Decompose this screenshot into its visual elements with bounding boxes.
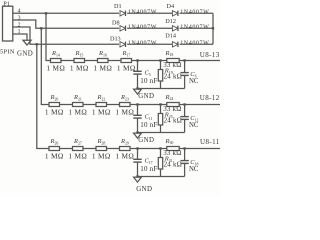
capacitor C6 <box>180 72 188 74</box>
node U8-13 resistor tap <box>159 59 161 61</box>
node U8-13 cap tap <box>136 59 138 61</box>
svg-text:D12: D12 <box>165 18 176 25</box>
diode D8 <box>120 26 126 31</box>
resistor R19 body <box>158 70 162 82</box>
junction feed U8-12 <box>40 27 42 29</box>
resistor R29 body <box>120 147 131 151</box>
wire cap to rail <box>137 162 139 176</box>
wire to R31 <box>160 149 162 158</box>
svg-text:1 MΩ: 1 MΩ <box>93 63 112 72</box>
resistor R16 body <box>98 59 109 63</box>
svg-text:D8: D8 <box>112 19 120 26</box>
capacitor C12 <box>180 116 188 118</box>
wire <box>107 148 120 150</box>
svg-text:NC: NC <box>189 166 199 173</box>
svg-text:D14: D14 <box>165 33 176 40</box>
svg-text:2: 2 <box>18 23 21 29</box>
diode D12 <box>172 26 178 31</box>
svg-text:10 nF: 10 nF <box>140 77 157 85</box>
junction feed U8-13 <box>45 12 47 14</box>
wire to cap C18 <box>184 149 186 161</box>
wire <box>85 60 98 62</box>
node U8-11 cap tap <box>136 147 138 149</box>
wire <box>60 148 73 150</box>
svg-text:1 MΩ: 1 MΩ <box>68 151 87 160</box>
node U8-11 resistor tap <box>159 147 161 149</box>
wire cap C18 to rail <box>184 163 186 176</box>
resistor R24 body <box>167 103 179 107</box>
resistor R26 body <box>49 147 60 151</box>
resistor R28 body <box>96 147 107 151</box>
ground at P1 pin1 <box>23 40 31 45</box>
ground rail U8-12 <box>138 132 185 134</box>
wire pin3 to D8 anode <box>13 20 119 28</box>
capacitor C5 <box>133 70 141 72</box>
junction feed U8-11 <box>36 43 38 45</box>
svg-text:GND: GND <box>138 137 154 144</box>
resistor R15 body <box>74 59 85 63</box>
connector P1 body <box>3 6 13 41</box>
wire to U8-13 <box>179 60 220 62</box>
svg-text:1 MΩ: 1 MΩ <box>68 107 87 116</box>
diode D13 <box>120 42 126 47</box>
svg-text:GND: GND <box>136 186 152 193</box>
svg-text:U8-12: U8-12 <box>200 94 220 102</box>
diode D4 <box>172 11 178 16</box>
wire <box>83 104 96 106</box>
capacitor C11 <box>133 114 141 116</box>
ground rail U8-11 <box>138 176 185 178</box>
wire to cap C12 <box>184 105 186 117</box>
wire to cap C6 <box>184 61 186 73</box>
resistor R31 body <box>158 158 162 170</box>
wire pin2 to D13 anode <box>13 27 119 44</box>
wire D13 cathode to D14 anode <box>127 43 172 45</box>
node U8-12 resistor tap <box>159 103 161 105</box>
capacitor C17 <box>133 158 141 160</box>
svg-text:D1: D1 <box>114 3 122 10</box>
wire chain to R24 U8-12 <box>130 104 167 106</box>
wire chain to R30 U8-11 <box>130 148 167 150</box>
node U8-13 NC cap tap <box>183 59 185 61</box>
svg-text:10 nF: 10 nF <box>140 121 157 129</box>
ground U8-13 <box>134 89 142 94</box>
wire pin4 to D1 anode <box>13 12 119 14</box>
svg-text:1 MΩ: 1 MΩ <box>115 151 134 160</box>
svg-text:U8-13: U8-13 <box>200 51 220 59</box>
wire to cap C11 <box>137 105 139 116</box>
resistor R14 body <box>51 59 62 63</box>
svg-text:1 MΩ: 1 MΩ <box>70 63 89 72</box>
svg-text:1 MΩ: 1 MΩ <box>92 151 111 160</box>
capacitor C18 <box>180 160 188 162</box>
wire cap C6 to rail <box>184 75 186 88</box>
junction diode bus row2 <box>212 27 214 29</box>
wire D14 cathode to bus <box>180 43 213 45</box>
node U8-12 cap tap <box>136 103 138 105</box>
wire chain to R18 U8-13 <box>132 60 167 62</box>
resistor R30 body <box>167 147 179 151</box>
wire feed to chain U8-13 <box>46 13 51 60</box>
resistor R20 body <box>49 103 60 107</box>
diode D14 <box>172 42 178 47</box>
wire D8 cathode to D12 anode <box>127 27 172 29</box>
svg-text:33 kΩ: 33 kΩ <box>163 61 181 69</box>
svg-text:5PIN: 5PIN <box>0 49 15 56</box>
node U8-11 NC cap tap <box>183 147 185 149</box>
wire R25 to rail <box>160 125 162 133</box>
svg-text:NC: NC <box>189 78 199 85</box>
wire <box>107 104 120 106</box>
svg-text:33 kΩ: 33 kΩ <box>163 149 181 157</box>
wire to U8-11 <box>179 148 220 150</box>
wire pin1 to ground <box>13 34 27 40</box>
wire cap to rail <box>137 74 139 88</box>
svg-text:24 kΩ: 24 kΩ <box>164 73 182 81</box>
wire cap to rail <box>137 118 139 132</box>
junction rail U8-11 <box>136 175 138 177</box>
wire to cap C5 <box>137 61 139 72</box>
wire to cap C17 <box>137 149 139 160</box>
junction rail U8-12 <box>136 131 138 133</box>
wire D12 cathode to bus <box>180 27 213 29</box>
svg-text:33 kΩ: 33 kΩ <box>163 105 181 113</box>
resistor R22 body <box>96 103 107 107</box>
wire <box>61 60 74 62</box>
wire R31 to rail <box>160 169 162 177</box>
svg-text:1 MΩ: 1 MΩ <box>45 107 64 116</box>
wire <box>108 60 121 62</box>
ground U8-12 <box>134 133 142 138</box>
wire D1 cathode to D4 anode <box>127 12 172 14</box>
svg-text:D4: D4 <box>167 3 175 10</box>
resistor R27 body <box>73 147 84 151</box>
wire feed to chain U8-11 <box>37 44 49 148</box>
wire diode cathode bus <box>212 13 214 44</box>
resistor R17 body <box>121 59 132 63</box>
wire feed to chain U8-12 <box>41 28 49 104</box>
wire R19 to rail <box>160 81 162 89</box>
svg-text:24 kΩ: 24 kΩ <box>164 161 182 169</box>
svg-text:U8-11: U8-11 <box>200 138 220 146</box>
wire to R25 <box>160 105 162 114</box>
svg-text:1 MΩ: 1 MΩ <box>117 63 136 72</box>
wire <box>83 148 96 150</box>
ground rail U8-13 <box>138 88 185 90</box>
resistor R21 body <box>73 103 84 107</box>
wire to U8-12 <box>179 104 220 106</box>
svg-text:10 nF: 10 nF <box>140 165 157 173</box>
wire to R19 <box>160 61 162 70</box>
svg-text:D13: D13 <box>110 35 121 42</box>
svg-text:1 MΩ: 1 MΩ <box>92 107 111 116</box>
diode D1 <box>120 11 126 16</box>
svg-text:NC: NC <box>189 122 199 129</box>
svg-text:1 MΩ: 1 MΩ <box>115 107 134 116</box>
wire cap C12 to rail <box>184 119 186 132</box>
resistor R25 body <box>158 114 162 126</box>
svg-text:GND: GND <box>138 93 154 100</box>
node U8-12 NC cap tap <box>183 103 185 105</box>
svg-text:24 kΩ: 24 kΩ <box>164 117 182 125</box>
ground U8-11 <box>134 177 142 182</box>
junction rail U8-13 <box>136 87 138 89</box>
resistor R18 body <box>167 59 179 63</box>
svg-text:1 MΩ: 1 MΩ <box>46 63 65 72</box>
resistor R23 body <box>120 103 131 107</box>
svg-text:GND: GND <box>17 50 33 57</box>
svg-text:1 MΩ: 1 MΩ <box>45 151 64 160</box>
wire D4 cathode to bus <box>180 12 213 14</box>
wire <box>60 104 73 106</box>
